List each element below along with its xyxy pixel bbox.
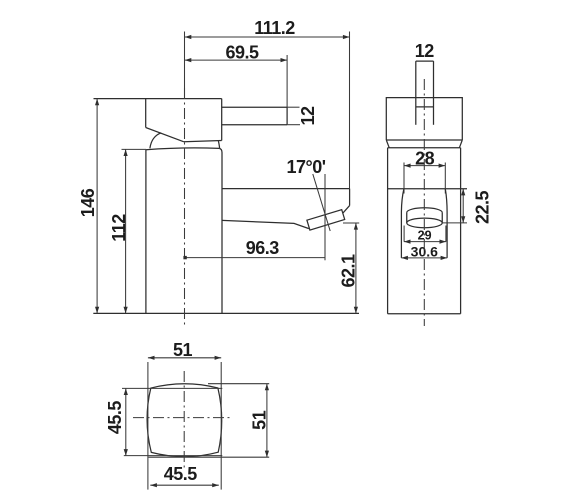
handle block right edge	[221, 99, 223, 141]
side body right edge	[460, 148, 462, 314]
svg-text:146: 146	[78, 188, 98, 217]
body left edge	[145, 150, 147, 314]
svg-text:51: 51	[250, 410, 270, 430]
dim 12 front extensions	[287, 106, 299, 108]
lever top edge	[222, 106, 287, 108]
rod top edge	[416, 60, 434, 62]
svg-text:69.5: 69.5	[225, 43, 259, 63]
svg-text:111.2: 111.2	[254, 18, 295, 38]
top view vertical centerline	[183, 371, 185, 468]
dim 111.2	[185, 36, 350, 38]
handle block top edge + 146 extension	[94, 98, 222, 100]
right fillet arc	[218, 141, 219, 148]
angle tilted line 17deg	[313, 174, 330, 231]
side block	[386, 98, 462, 140]
dim 51 top	[148, 357, 221, 359]
svg-text:45.5: 45.5	[105, 401, 125, 435]
rod joint line	[416, 106, 434, 108]
body top arc	[146, 148, 219, 150]
side body bottom edge	[388, 313, 461, 315]
29 extensions	[403, 226, 405, 242]
svg-text:45.5: 45.5	[164, 464, 198, 484]
lever tip edge	[286, 107, 288, 125]
front centerline	[184, 88, 186, 326]
transition left slant	[386, 140, 389, 148]
angle vertical reference	[324, 174, 326, 260]
dim 51 right	[266, 384, 268, 458]
squircle outline	[147, 384, 222, 457]
silhouette right side	[445, 189, 447, 258]
spout base line + 22.5 top extension	[388, 188, 467, 190]
spout underside	[222, 220, 309, 228]
top view horizontal centerline	[133, 417, 233, 419]
aerator right side	[441, 213, 443, 223]
svg-text:17°0': 17°0'	[286, 157, 325, 177]
aerator bottom ellipse	[407, 218, 443, 228]
handle block left edge	[145, 99, 147, 128]
dome left arc	[150, 133, 161, 149]
rod right edge	[433, 61, 435, 125]
dim 28	[404, 165, 445, 167]
dim 30.6	[401, 257, 447, 259]
dim 96.3	[185, 257, 325, 259]
svg-text:22.5: 22.5	[473, 191, 493, 225]
lever bottom edge	[222, 124, 287, 126]
svg-text:96.3: 96.3	[246, 238, 280, 258]
svg-text:62.1: 62.1	[339, 254, 359, 288]
silhouette left side	[401, 189, 404, 258]
body right edge	[219, 148, 222, 313]
dim 112	[125, 149, 127, 313]
dim 146	[96, 99, 98, 314]
svg-text:28: 28	[415, 148, 435, 168]
handle block bottom right edge	[184, 141, 222, 142]
dim 29	[404, 241, 446, 243]
handle bottom diagonal	[146, 128, 184, 142]
aerator top arc	[407, 208, 443, 213]
dim 22.5 bottom extension	[442, 222, 467, 224]
rod left edge	[415, 61, 417, 125]
aerator left side	[406, 213, 408, 223]
dim 69.5	[185, 59, 287, 61]
body top line	[388, 147, 461, 149]
svg-text:12: 12	[415, 41, 435, 61]
transition right slant	[459, 140, 462, 148]
side block bottom edge	[386, 139, 462, 141]
dim 45.5 left	[125, 388, 127, 455]
dim 62.1	[355, 223, 357, 313]
dim 45.5 bottom	[150, 484, 219, 486]
spout chamfer	[343, 206, 350, 214]
svg-text:51: 51	[173, 340, 193, 360]
base line	[93, 312, 359, 314]
dim 22.5 line	[462, 189, 464, 223]
spout top edge	[222, 188, 350, 190]
nozzle rect	[307, 210, 345, 231]
svg-text:112: 112	[109, 214, 129, 242]
spout right edge	[349, 189, 351, 206]
side body left edge	[387, 148, 389, 314]
svg-text:12: 12	[298, 106, 318, 126]
side centerline	[423, 79, 425, 326]
